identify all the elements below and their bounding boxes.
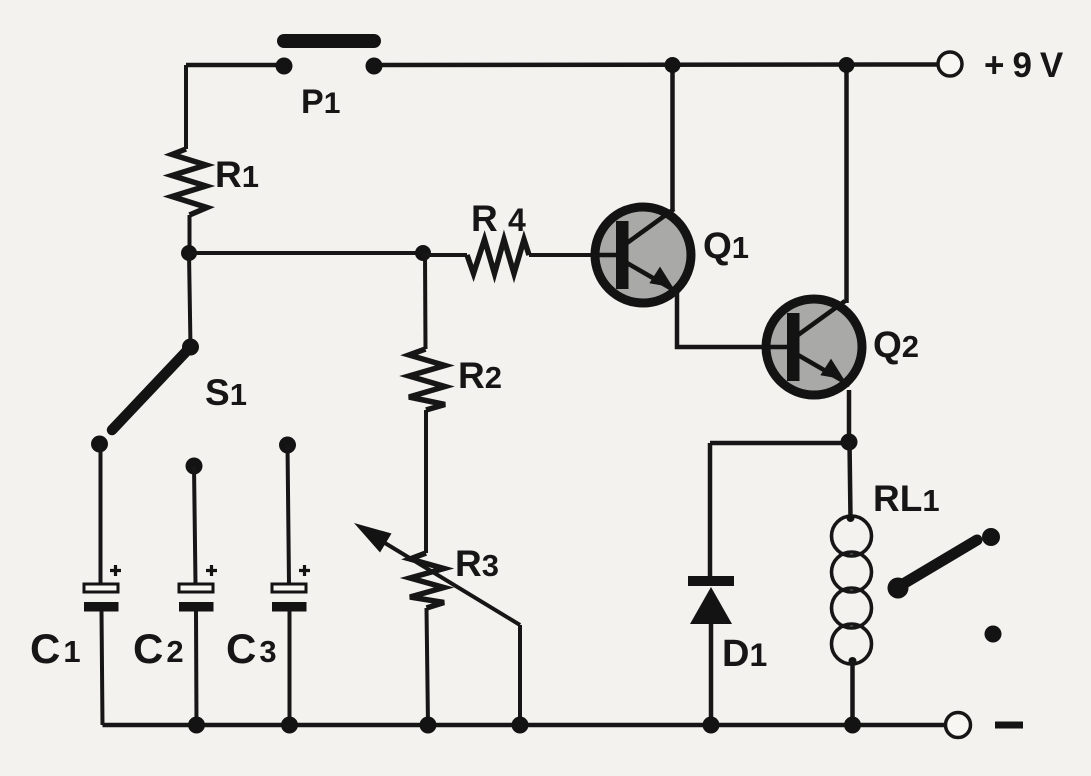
wire Q1 emitter to Q2 base <box>677 293 764 347</box>
wire bottom rail <box>103 723 947 728</box>
terminal +9V <box>938 46 1071 85</box>
node C3 top <box>279 437 296 454</box>
svg-text:R 4: R 4 <box>471 198 526 239</box>
node bottom rail / C2 <box>188 717 205 734</box>
wire node A to S1 <box>189 253 191 347</box>
node bottom rail / wiper <box>512 717 529 734</box>
node bottom rail / R3 <box>420 717 437 734</box>
capacitor C1 <box>30 565 121 672</box>
relay coil RL1 <box>832 478 940 665</box>
wire top rail right segment <box>374 62 937 67</box>
relay contact arm <box>888 540 978 599</box>
wire R2 to R3 <box>424 410 428 553</box>
wire R1 to node A <box>188 215 192 253</box>
svg-text:P1: P1 <box>301 83 340 121</box>
wire node A to node B <box>189 251 423 255</box>
svg-text:Q1: Q1 <box>703 225 749 266</box>
node bottom rail / RL1 <box>844 717 861 734</box>
resistor R4 <box>467 198 529 274</box>
svg-text:RL1: RL1 <box>873 478 940 519</box>
node top rail / Q1 collector <box>665 57 681 73</box>
relay contact lower point <box>985 626 1002 643</box>
wire Q2 collector to top rail <box>844 65 849 303</box>
wire node C to D1 <box>710 441 849 446</box>
svg-text:D1: D1 <box>722 633 767 675</box>
capacitor C2 <box>133 565 217 672</box>
wire node C to relay coil <box>850 442 851 518</box>
svg-text:R1: R1 <box>215 154 259 195</box>
svg-text:Q2: Q2 <box>873 324 919 365</box>
transistor Q1 <box>592 207 749 303</box>
wire relay coil to bottom rail <box>850 661 855 725</box>
terminal minus <box>946 713 1024 738</box>
wire C2 to bottom rail <box>194 611 199 725</box>
svg-text:S1: S1 <box>205 372 247 413</box>
wire D1 anode to bottom rail <box>709 624 714 725</box>
wire node B to R4 <box>423 253 467 257</box>
wire left vertical from top rail to R1 <box>184 65 188 149</box>
resistor R1 <box>172 149 259 215</box>
resistor R2 <box>409 349 502 410</box>
wire C3 to bottom rail <box>288 611 292 725</box>
switch S1 <box>91 339 247 453</box>
node B (R2 top junction) <box>415 245 431 261</box>
node C2 top <box>186 458 203 475</box>
svg-text:+9V: +9V <box>984 46 1071 85</box>
svg-text:R3: R3 <box>455 543 499 584</box>
wire wiper to bottom rail <box>518 625 522 725</box>
node top rail / Q2 collector <box>839 57 855 73</box>
node A (R1/S1/base-row junction) <box>181 245 197 261</box>
wire S1 to C1 <box>99 444 103 584</box>
wire C1 to bottom rail corner <box>102 611 103 725</box>
wire C2 top lead <box>194 466 196 584</box>
pushbutton P1 <box>276 41 383 121</box>
R3 wiper arrow <box>354 523 520 625</box>
wire Q1 collector to top rail <box>670 65 675 211</box>
svg-text:R2: R2 <box>458 355 502 396</box>
wire R3 bottom to rail <box>427 608 429 725</box>
node bottom rail / D1 <box>703 717 720 734</box>
wire D1 cathode riser <box>708 443 713 577</box>
node bottom rail / C3 <box>281 717 298 734</box>
capacitor C3 <box>226 565 310 672</box>
potentiometer R3 <box>410 543 499 608</box>
wire R4 to Q1 base <box>529 253 595 257</box>
transistor Q2 <box>764 299 919 395</box>
node C (emitter / D1 / relay coil junction) <box>841 434 858 451</box>
relay contact upper point <box>982 528 1000 546</box>
diode D1 <box>688 576 767 675</box>
wire Q2 emitter to node C <box>847 390 852 442</box>
wire top rail left segment <box>186 63 284 68</box>
wire C3 top lead <box>288 445 290 584</box>
wire node B to R2 <box>423 253 428 349</box>
